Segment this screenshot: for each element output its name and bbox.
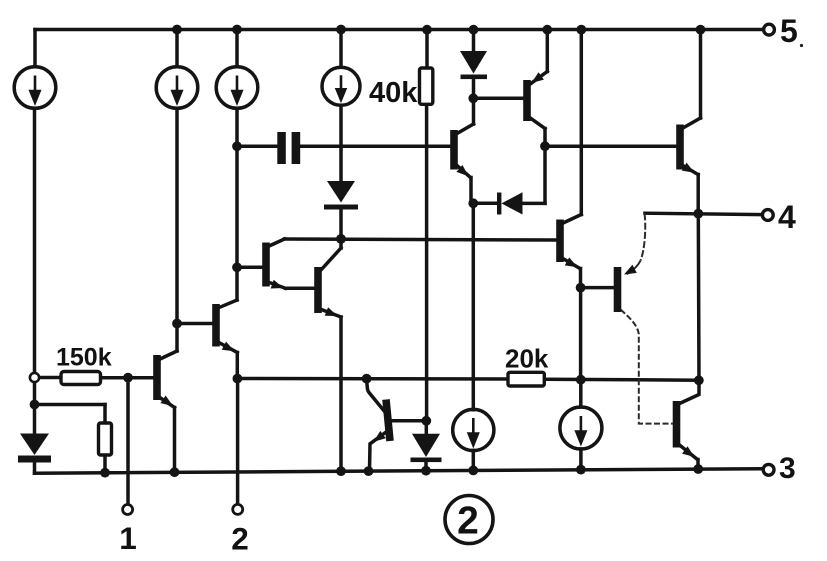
svg-text:2: 2 bbox=[457, 500, 479, 543]
svg-text:3: 3 bbox=[779, 452, 796, 485]
svg-text:1: 1 bbox=[119, 520, 137, 556]
svg-text:40k: 40k bbox=[369, 77, 418, 109]
svg-text:2: 2 bbox=[231, 521, 249, 557]
svg-text:4: 4 bbox=[778, 199, 796, 235]
svg-text:5: 5 bbox=[780, 13, 798, 49]
svg-text:20k: 20k bbox=[505, 344, 549, 374]
svg-text:150k: 150k bbox=[56, 344, 112, 372]
